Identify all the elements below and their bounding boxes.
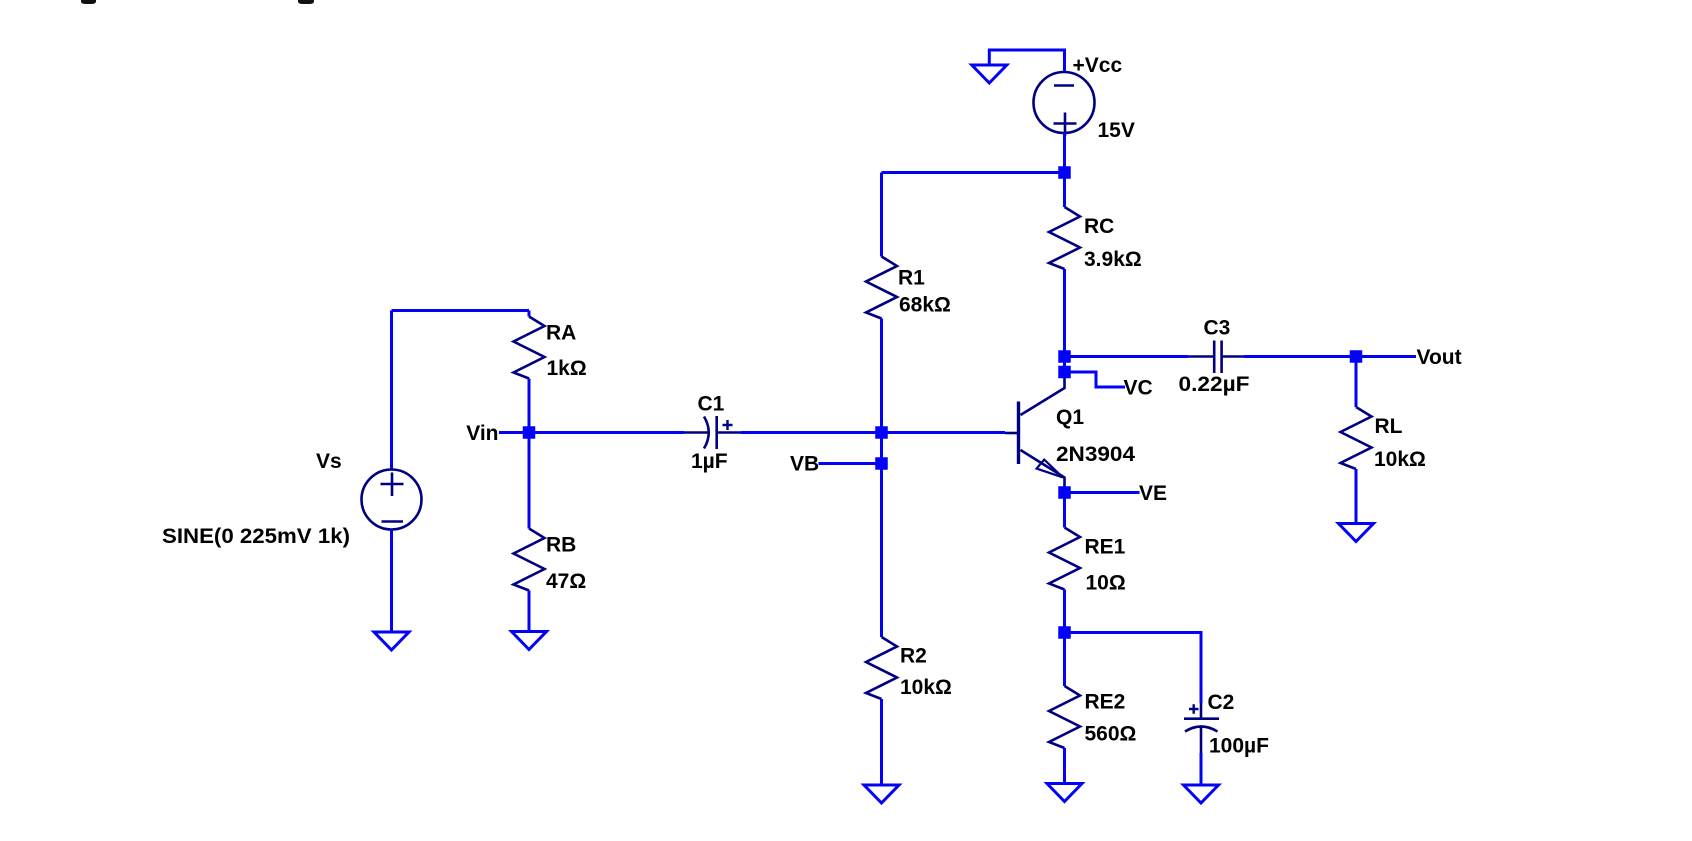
resistor R1 xyxy=(866,257,897,319)
wire emitter node to VE flag xyxy=(1065,491,1140,494)
label Vs xyxy=(316,450,342,473)
resistor RE2 xyxy=(1049,686,1080,748)
svg-text:RC: RC xyxy=(1084,215,1114,238)
net label +Vcc xyxy=(1073,54,1123,77)
svg-text:VC: VC xyxy=(1124,377,1153,400)
svg-text:C1: C1 xyxy=(698,393,725,416)
wire rail down to R1 xyxy=(880,173,883,257)
wire VC tap jog xyxy=(1065,372,1126,387)
svg-text:RE2: RE2 xyxy=(1085,691,1126,714)
label RA xyxy=(546,322,576,345)
svg-text:C2: C2 xyxy=(1208,691,1235,714)
svg-text:3.9kΩ: 3.9kΩ xyxy=(1084,248,1142,271)
value 100uF xyxy=(1209,735,1269,758)
transistor Q1 2N3904 xyxy=(1005,372,1065,493)
net label VC xyxy=(1124,377,1153,400)
wire collector node to C3 xyxy=(1065,355,1189,358)
value 2N3904 xyxy=(1056,443,1135,466)
ground (RB) xyxy=(512,632,547,650)
node junction collector / C3 xyxy=(1058,350,1071,363)
svg-text:RA: RA xyxy=(546,322,576,345)
wire Vcc source to rail node xyxy=(1063,133,1066,173)
label C3 xyxy=(1204,317,1231,340)
wire C1 to base junction xyxy=(741,431,1005,434)
net label Vin xyxy=(466,422,498,445)
wire R1 bottom to base node xyxy=(880,319,883,434)
stray text fragment top-mid xyxy=(298,0,314,4)
ground (Vcc supply) xyxy=(972,65,1007,83)
wire VB flag to node xyxy=(819,462,882,465)
wire Vcc ground jog (top) xyxy=(989,50,1064,72)
svg-text:0.22µF: 0.22µF xyxy=(1179,373,1250,396)
value 10k ohm (RL) xyxy=(1374,448,1426,471)
resistor RL xyxy=(1341,407,1372,469)
svg-text:VB: VB xyxy=(790,453,819,476)
resistor RA xyxy=(514,317,545,379)
value SINE(0 225mV 1k) xyxy=(162,525,350,548)
value 10 ohm xyxy=(1086,572,1126,595)
node junction base xyxy=(875,426,888,439)
svg-text:15V: 15V xyxy=(1098,119,1135,142)
resistor RC xyxy=(1049,207,1080,269)
svg-text:C3: C3 xyxy=(1204,317,1231,340)
label Q1 xyxy=(1056,406,1084,429)
node junction RE1/RE2/C2 xyxy=(1058,626,1071,639)
label R1 xyxy=(898,267,925,290)
label RE2 xyxy=(1085,691,1126,714)
label R2 xyxy=(900,645,927,668)
svg-text:R2: R2 xyxy=(900,645,927,668)
wire Vin flag to node xyxy=(499,431,529,434)
svg-text:RB: RB xyxy=(546,534,576,557)
svg-text:RL: RL xyxy=(1375,415,1403,438)
net label VB xyxy=(790,453,819,476)
capacitor C2 (polarized) xyxy=(1184,703,1219,753)
svg-text:68kΩ: 68kΩ xyxy=(899,294,951,317)
value 10k ohm xyxy=(900,676,952,699)
wire node to C2 branch xyxy=(1065,633,1202,704)
node junction Vout xyxy=(1350,350,1363,363)
label RE1 xyxy=(1085,536,1126,559)
wire RC to collector node xyxy=(1063,269,1066,372)
svg-text:10kΩ: 10kΩ xyxy=(900,676,952,699)
wire R2 to ground xyxy=(880,699,883,785)
wire emitter down to RE1 xyxy=(1063,493,1066,528)
ground (RL) xyxy=(1339,524,1374,542)
value 47 ohm xyxy=(546,570,586,593)
svg-text:VE: VE xyxy=(1139,482,1167,505)
wire Vs vertical xyxy=(390,311,393,471)
capacitor C3 xyxy=(1188,341,1244,374)
wire supply rail horizontal xyxy=(882,171,1065,174)
value 0.22uF xyxy=(1179,373,1250,396)
svg-text:560Ω: 560Ω xyxy=(1085,723,1137,746)
wire Vout node to flag xyxy=(1356,355,1416,358)
wire RL to ground xyxy=(1355,469,1358,524)
ground (R2) xyxy=(864,785,899,803)
svg-text:+Vcc: +Vcc xyxy=(1073,54,1123,77)
label RB xyxy=(546,534,576,557)
node junction VC tap xyxy=(1058,366,1071,379)
wire RA top stub xyxy=(528,311,531,317)
ground (Vs) xyxy=(374,632,409,650)
wire RE1 to node xyxy=(1063,590,1066,633)
wire base node down to R2 xyxy=(880,433,883,637)
value 560 ohm xyxy=(1085,723,1137,746)
svg-text:R1: R1 xyxy=(898,267,925,290)
value 68k ohm xyxy=(899,294,951,317)
svg-text:Vout: Vout xyxy=(1417,346,1462,369)
label RL xyxy=(1375,415,1403,438)
net label VE xyxy=(1139,482,1167,505)
label C2 xyxy=(1208,691,1235,714)
resistor RE1 xyxy=(1049,528,1080,590)
svg-text:10kΩ: 10kΩ xyxy=(1374,448,1426,471)
wire Vs top horizontal xyxy=(392,309,530,312)
svg-text:1µF: 1µF xyxy=(691,450,728,473)
voltage source V1 Vcc circle xyxy=(1034,72,1095,136)
wire C3 to Vout node xyxy=(1244,355,1356,358)
wire Vin node to C1 xyxy=(529,431,684,434)
wire node down to RE2 xyxy=(1063,633,1066,687)
ground (RE2) xyxy=(1047,784,1082,802)
node junction at Vcc rail xyxy=(1058,166,1071,179)
node junction emitter xyxy=(1058,486,1071,499)
svg-text:Vin: Vin xyxy=(466,422,498,445)
svg-text:1kΩ: 1kΩ xyxy=(547,357,587,380)
wire Vs bottom to ground xyxy=(390,530,393,633)
value 1k ohm xyxy=(547,357,587,380)
wire rail node down to RC xyxy=(1063,173,1066,208)
resistor R2 xyxy=(866,637,897,699)
wire RE2 to ground xyxy=(1063,748,1066,784)
wire RA bottom to Vin node xyxy=(528,379,531,434)
svg-text:2N3904: 2N3904 xyxy=(1056,443,1135,466)
svg-text:Vs: Vs xyxy=(316,450,342,473)
ground (C2) xyxy=(1184,785,1219,803)
node junction Vin xyxy=(523,426,536,439)
svg-text:10Ω: 10Ω xyxy=(1086,572,1126,595)
value label 15V xyxy=(1098,119,1135,142)
label C1 xyxy=(698,393,725,416)
svg-text:Q1: Q1 xyxy=(1056,406,1084,429)
value 3.9k ohm xyxy=(1084,248,1142,271)
svg-text:47Ω: 47Ω xyxy=(546,570,586,593)
capacitor C1 (polarized) xyxy=(684,416,741,449)
stray text fragment top-left xyxy=(81,0,96,4)
svg-text:RE1: RE1 xyxy=(1085,536,1126,559)
svg-text:SINE(0 225mV 1k): SINE(0 225mV 1k) xyxy=(162,525,350,548)
wire RB to ground xyxy=(528,591,531,632)
wire Vin node to RB xyxy=(528,433,531,529)
voltage source Vs circle xyxy=(362,470,422,530)
net label Vout xyxy=(1417,346,1462,369)
value 1uF xyxy=(691,450,728,473)
node junction VB xyxy=(875,457,888,470)
resistor RB xyxy=(514,529,545,591)
wire C2 to ground xyxy=(1200,753,1203,785)
svg-text:100µF: 100µF xyxy=(1209,735,1269,758)
label RC xyxy=(1084,215,1114,238)
wire Vout node down to RL xyxy=(1355,357,1358,408)
